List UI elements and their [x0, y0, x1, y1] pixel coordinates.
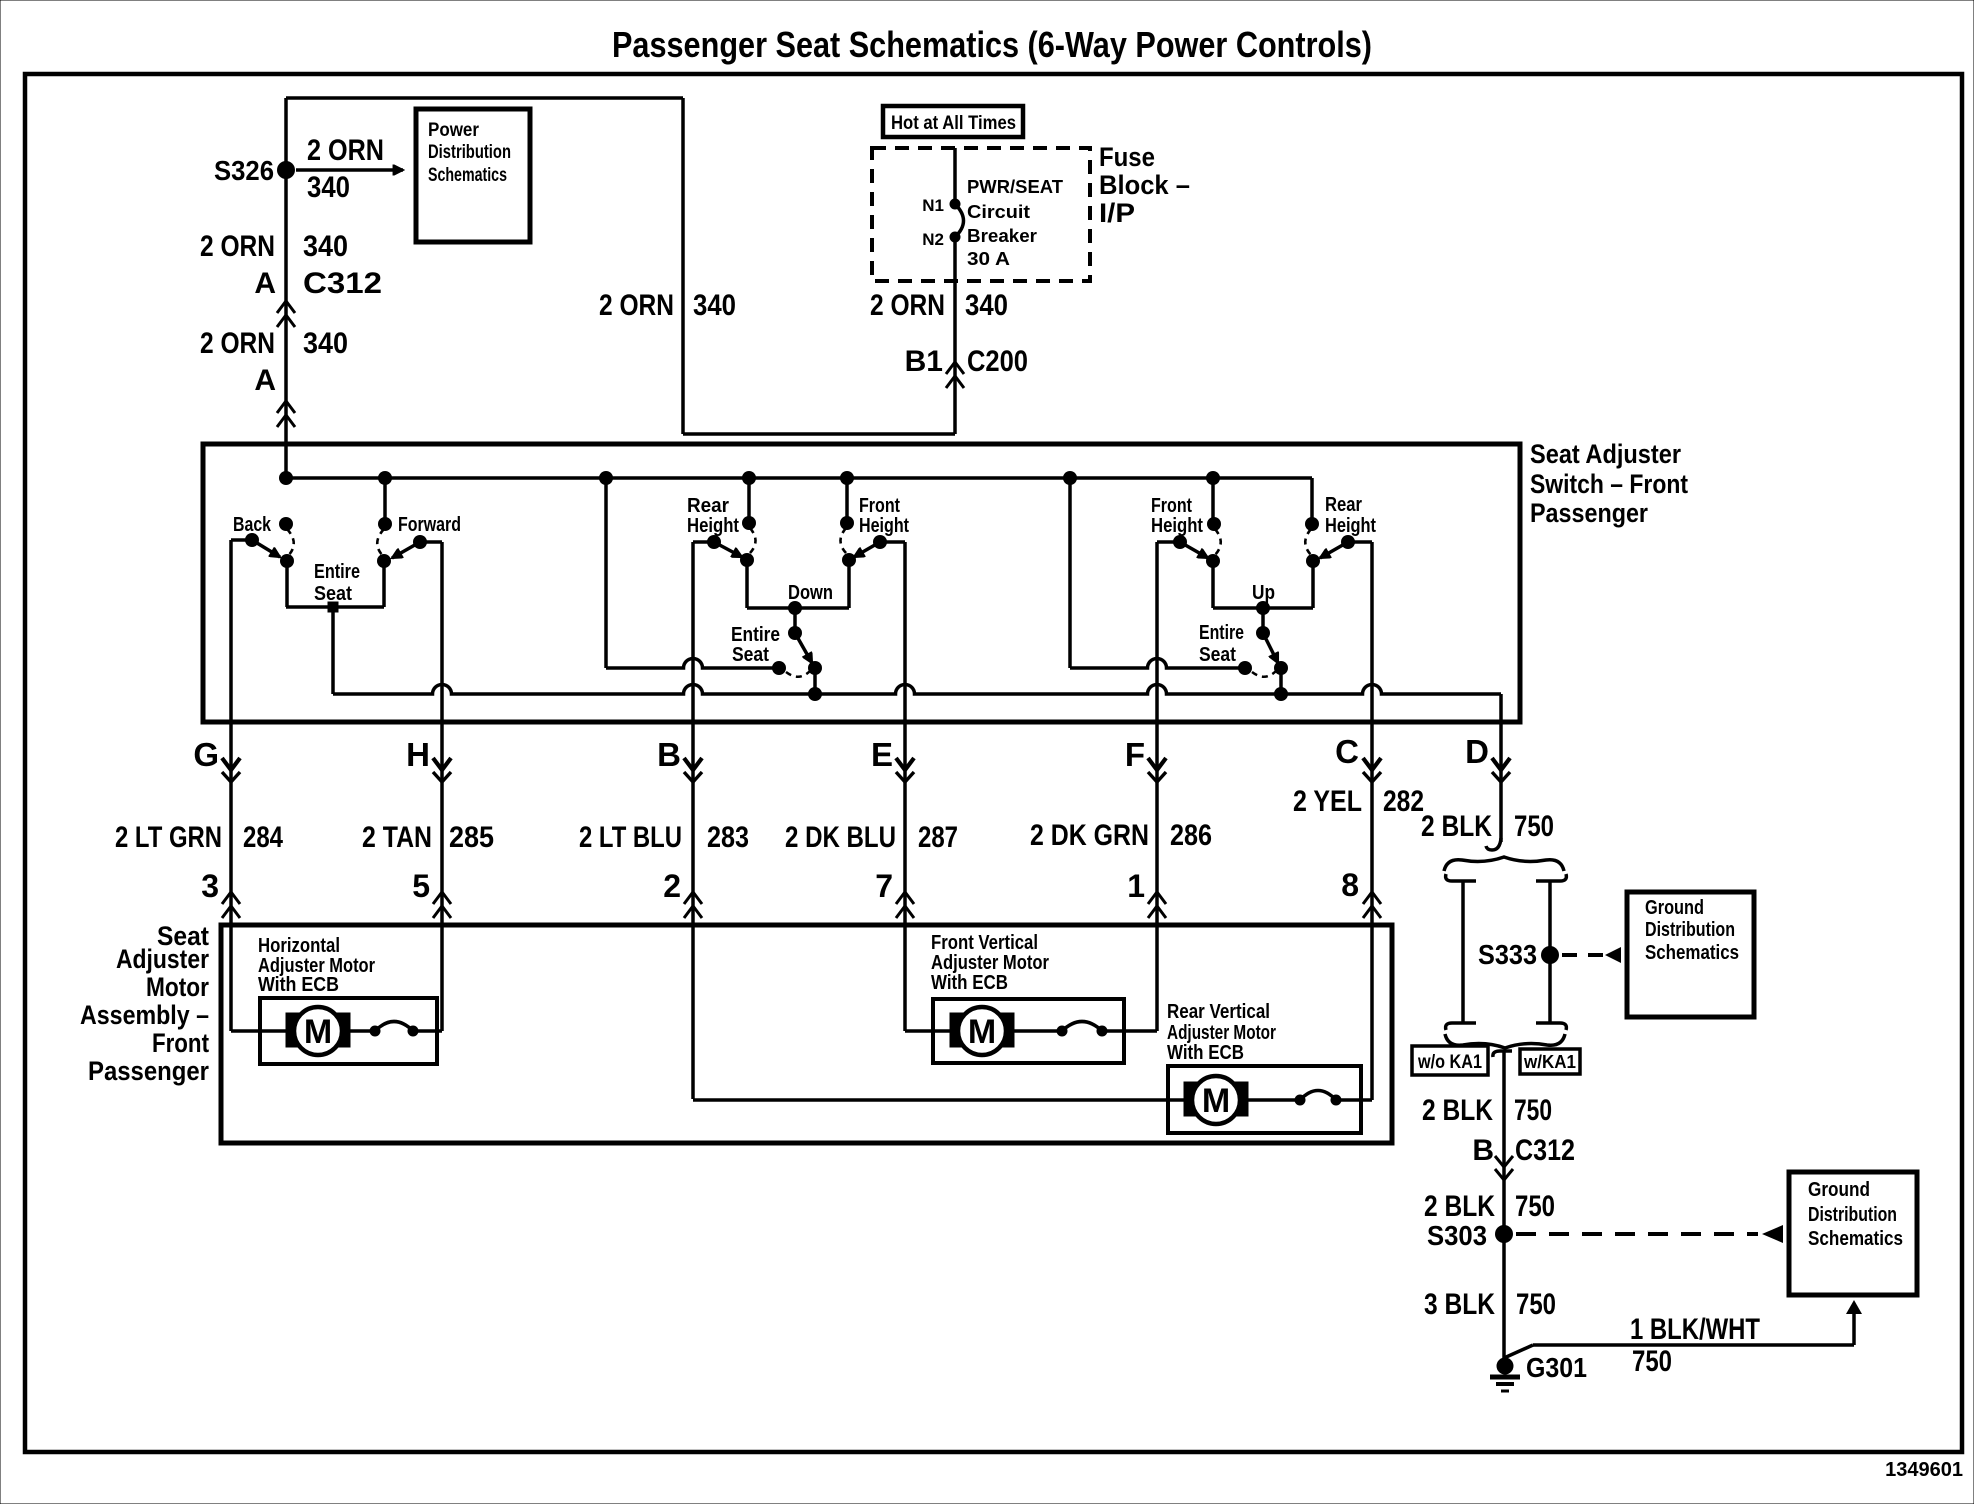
- svg-text:G301: G301: [1526, 1352, 1587, 1383]
- svg-text:30 A: 30 A: [967, 249, 1010, 269]
- svg-text:750: 750: [1514, 810, 1554, 843]
- svg-text:340: 340: [965, 289, 1008, 322]
- svg-text:w/KA1: w/KA1: [1523, 1052, 1576, 1072]
- svg-text:Down: Down: [788, 582, 833, 604]
- svg-text:2 DK GRN: 2 DK GRN: [1030, 819, 1149, 852]
- svg-text:2 LT GRN: 2 LT GRN: [115, 821, 222, 854]
- svg-text:340: 340: [303, 327, 348, 360]
- svg-text:C312: C312: [1515, 1134, 1575, 1167]
- svg-text:A: A: [254, 364, 276, 397]
- svg-text:2 ORN: 2 ORN: [870, 289, 945, 322]
- svg-text:Power: Power: [428, 120, 480, 141]
- svg-text:750: 750: [1514, 1094, 1552, 1127]
- svg-text:Rear: Rear: [687, 495, 729, 517]
- svg-text:C: C: [1335, 733, 1359, 770]
- svg-text:N2: N2: [922, 230, 944, 249]
- svg-text:Rear: Rear: [1325, 494, 1362, 516]
- svg-text:With ECB: With ECB: [1167, 1042, 1244, 1064]
- svg-text:Entire: Entire: [314, 561, 360, 583]
- svg-text:M: M: [304, 1013, 332, 1051]
- svg-text:H: H: [406, 736, 430, 773]
- svg-text:2 TAN: 2 TAN: [362, 821, 432, 854]
- svg-text:2 YEL: 2 YEL: [1293, 785, 1362, 818]
- svg-text:2 LT BLU: 2 LT BLU: [579, 821, 682, 854]
- svg-text:Block –: Block –: [1099, 170, 1190, 200]
- svg-text:282: 282: [1383, 785, 1424, 818]
- svg-text:Passenger Seat Schematics (6-W: Passenger Seat Schematics (6-Way Power C…: [612, 24, 1372, 65]
- svg-text:Schematics: Schematics: [1808, 1228, 1903, 1250]
- svg-text:F: F: [1125, 736, 1145, 773]
- svg-text:Height: Height: [1325, 515, 1376, 537]
- svg-text:Ground: Ground: [1808, 1179, 1870, 1201]
- svg-text:Front: Front: [152, 1028, 209, 1058]
- svg-text:Adjuster Motor: Adjuster Motor: [931, 952, 1049, 974]
- svg-text:S326: S326: [214, 155, 274, 186]
- svg-text:284: 284: [243, 821, 283, 854]
- svg-text:Height: Height: [859, 515, 909, 537]
- svg-text:Up: Up: [1252, 582, 1275, 604]
- svg-text:Circuit: Circuit: [967, 202, 1030, 222]
- svg-text:1: 1: [1127, 868, 1145, 904]
- svg-text:B1: B1: [905, 345, 943, 378]
- svg-text:Entire: Entire: [1199, 622, 1244, 644]
- svg-text:Front: Front: [859, 495, 900, 517]
- svg-text:Entire: Entire: [731, 624, 780, 646]
- svg-text:287: 287: [918, 821, 958, 854]
- svg-text:340: 340: [303, 230, 348, 263]
- svg-text:N1: N1: [922, 196, 944, 215]
- svg-text:Distribution: Distribution: [1808, 1204, 1897, 1226]
- svg-text:Back: Back: [233, 514, 272, 536]
- svg-text:2 BLK: 2 BLK: [1424, 1190, 1495, 1223]
- svg-text:Distribution: Distribution: [1645, 919, 1735, 941]
- svg-text:Height: Height: [1151, 515, 1203, 537]
- svg-text:Adjuster: Adjuster: [116, 944, 209, 974]
- svg-text:Schematics: Schematics: [428, 165, 507, 186]
- svg-text:750: 750: [1515, 1190, 1555, 1223]
- svg-text:Forward: Forward: [398, 514, 461, 536]
- svg-text:2 BLK: 2 BLK: [1421, 810, 1492, 843]
- svg-text:Motor: Motor: [146, 972, 209, 1002]
- svg-text:5: 5: [412, 868, 430, 904]
- svg-text:750: 750: [1632, 1345, 1672, 1378]
- svg-text:A: A: [254, 267, 276, 300]
- svg-text:1 BLK/WHT: 1 BLK/WHT: [1630, 1313, 1760, 1346]
- svg-text:I/P: I/P: [1099, 198, 1135, 228]
- svg-text:Hot at All Times: Hot at All Times: [891, 113, 1016, 134]
- svg-text:Fuse: Fuse: [1099, 142, 1155, 172]
- svg-text:B: B: [657, 736, 681, 773]
- svg-text:2 ORN: 2 ORN: [200, 230, 275, 263]
- svg-text:Schematics: Schematics: [1645, 942, 1739, 964]
- svg-text:Distribution: Distribution: [428, 142, 511, 163]
- svg-text:With ECB: With ECB: [258, 974, 339, 996]
- svg-text:B: B: [1472, 1134, 1494, 1167]
- svg-text:S303: S303: [1427, 1220, 1487, 1251]
- svg-text:2 ORN: 2 ORN: [599, 289, 674, 322]
- svg-text:C312: C312: [303, 267, 382, 300]
- svg-text:Rear Vertical: Rear Vertical: [1167, 1001, 1270, 1023]
- svg-text:Seat: Seat: [314, 583, 352, 605]
- svg-text:Front Vertical: Front Vertical: [931, 932, 1038, 954]
- svg-text:340: 340: [307, 171, 350, 204]
- svg-text:Seat: Seat: [732, 644, 769, 666]
- svg-text:Breaker: Breaker: [967, 226, 1037, 246]
- svg-text:M: M: [968, 1013, 996, 1051]
- svg-text:285: 285: [449, 821, 494, 854]
- svg-text:2 ORN: 2 ORN: [200, 327, 275, 360]
- svg-text:Adjuster Motor: Adjuster Motor: [1167, 1022, 1276, 1044]
- svg-text:2 BLK: 2 BLK: [1422, 1094, 1493, 1127]
- svg-text:Seat Adjuster: Seat Adjuster: [1530, 439, 1681, 469]
- svg-text:Assembly –: Assembly –: [80, 1000, 209, 1030]
- svg-text:PWR/SEAT: PWR/SEAT: [967, 177, 1063, 197]
- svg-text:3: 3: [201, 868, 219, 904]
- svg-text:Front: Front: [1151, 495, 1192, 517]
- svg-text:7: 7: [875, 868, 893, 904]
- svg-text:2: 2: [663, 868, 681, 904]
- svg-text:3 BLK: 3 BLK: [1424, 1288, 1495, 1321]
- svg-text:340: 340: [693, 289, 736, 322]
- svg-text:Passenger: Passenger: [88, 1056, 209, 1086]
- svg-text:G: G: [193, 736, 219, 773]
- svg-text:Ground: Ground: [1645, 897, 1704, 919]
- svg-text:M: M: [1202, 1082, 1230, 1120]
- svg-text:S333: S333: [1478, 939, 1537, 970]
- svg-text:Height: Height: [687, 515, 739, 537]
- svg-text:750: 750: [1516, 1288, 1556, 1321]
- svg-text:D: D: [1465, 733, 1489, 770]
- svg-text:Switch – Front: Switch – Front: [1530, 469, 1688, 499]
- svg-text:Horizontal: Horizontal: [258, 935, 340, 957]
- svg-text:w/o KA1: w/o KA1: [1417, 1052, 1482, 1073]
- svg-text:With ECB: With ECB: [931, 972, 1008, 994]
- svg-text:Seat: Seat: [1199, 644, 1236, 666]
- svg-text:8: 8: [1341, 867, 1359, 903]
- svg-text:C200: C200: [967, 345, 1028, 378]
- svg-text:283: 283: [707, 821, 749, 854]
- svg-text:2 DK BLU: 2 DK BLU: [785, 821, 896, 854]
- svg-text:E: E: [871, 736, 893, 773]
- svg-text:Passenger: Passenger: [1530, 498, 1648, 528]
- svg-text:2 ORN: 2 ORN: [307, 134, 384, 167]
- svg-text:1349601: 1349601: [1885, 1459, 1963, 1481]
- svg-text:286: 286: [1170, 819, 1212, 852]
